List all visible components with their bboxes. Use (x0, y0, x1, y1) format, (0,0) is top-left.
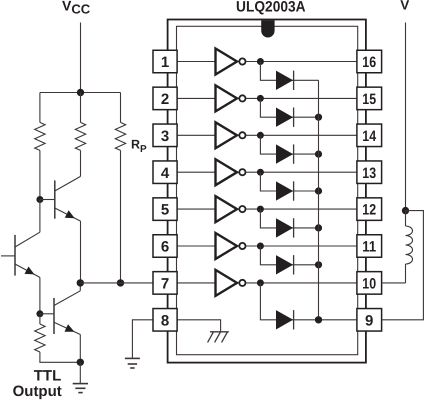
svg-text:5: 5 (161, 202, 169, 219)
svg-text:12: 12 (362, 202, 376, 219)
svg-text:11: 11 (362, 239, 376, 256)
svg-text:7: 7 (161, 276, 169, 293)
svg-text:1: 1 (161, 54, 169, 71)
svg-text:13: 13 (362, 165, 376, 182)
svg-text:9: 9 (365, 312, 373, 329)
svg-text:V: V (400, 0, 409, 13)
svg-text:Output: Output (13, 383, 62, 400)
svg-text:16: 16 (362, 54, 376, 71)
svg-text:2: 2 (161, 91, 169, 108)
svg-text:10: 10 (362, 276, 376, 293)
svg-text:8: 8 (161, 312, 169, 329)
svg-text:6: 6 (161, 239, 169, 256)
svg-text:15: 15 (362, 91, 376, 108)
svg-text:3: 3 (161, 128, 169, 145)
svg-text:4: 4 (161, 165, 170, 182)
svg-text:14: 14 (362, 128, 376, 145)
svg-text:ULQ2003A: ULQ2003A (236, 0, 306, 16)
